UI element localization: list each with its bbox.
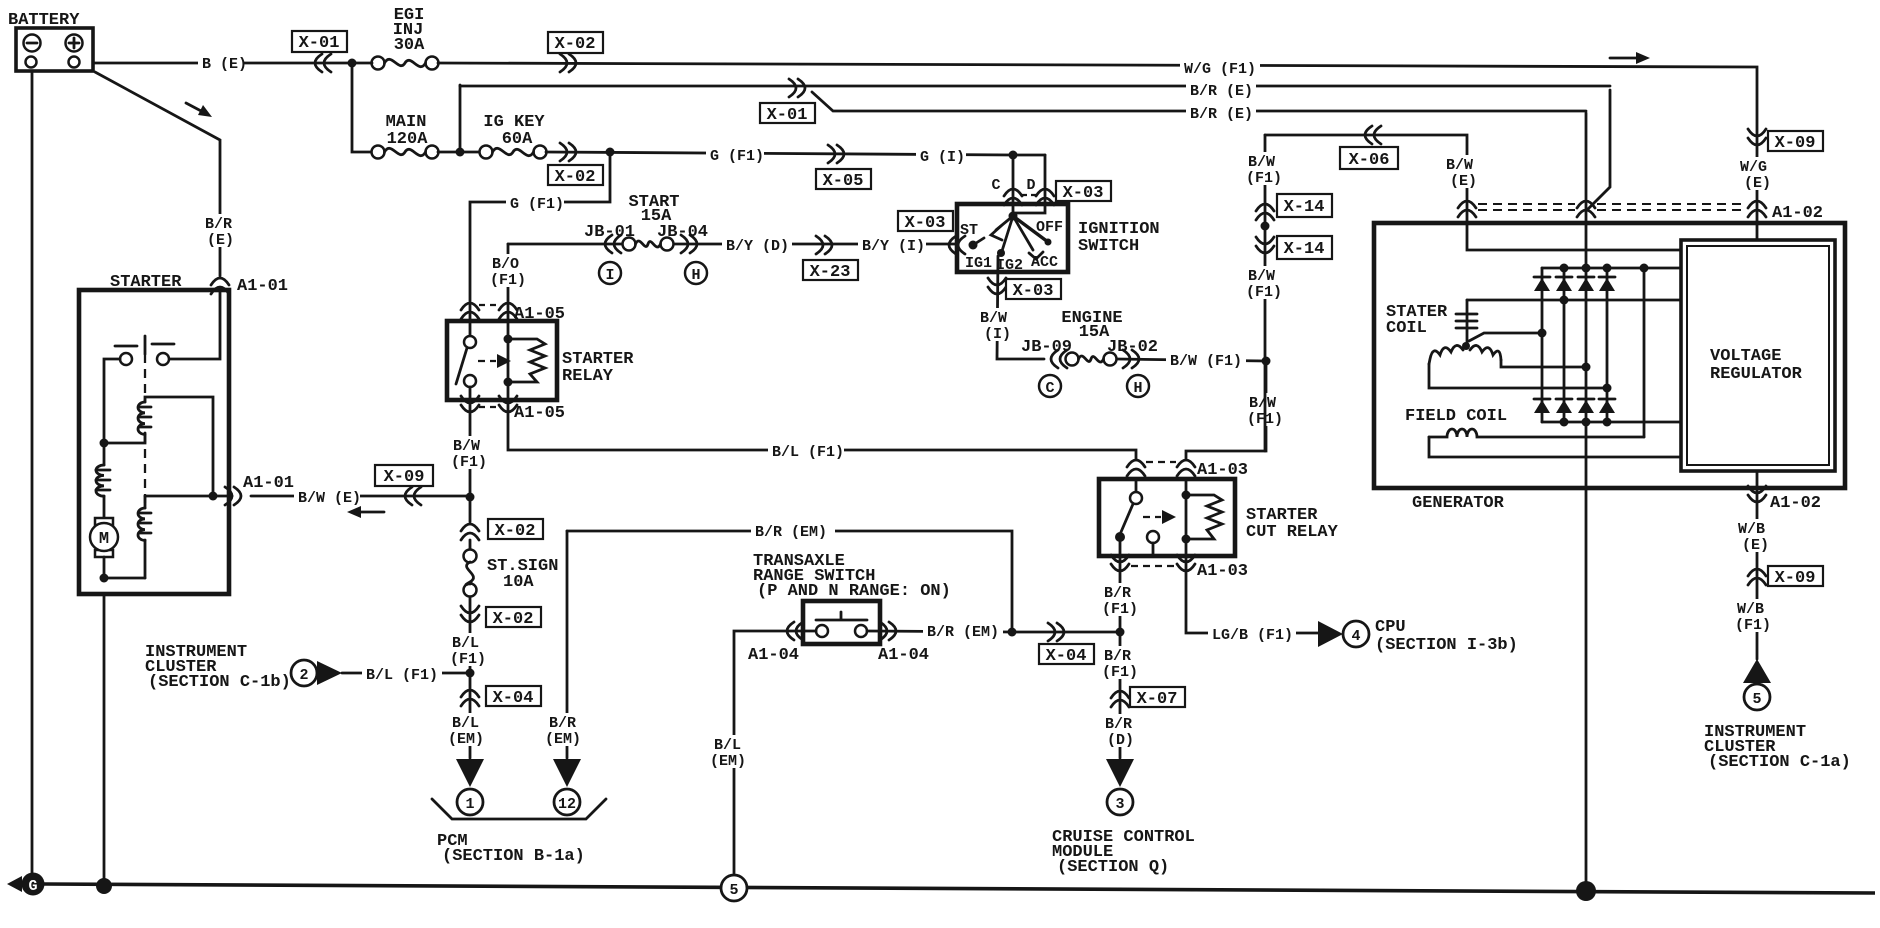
svg-text:JB-02: JB-02 — [1107, 338, 1158, 357]
transaxle range switch S2 — [753, 552, 951, 644]
starter cut relay K2 — [1099, 479, 1339, 556]
svg-text:B/R: B/R — [1104, 648, 1131, 665]
svg-text:A1-04: A1-04 — [748, 646, 799, 665]
svg-text:10A: 10A — [503, 573, 534, 592]
fuse ST.SIGN 10A — [464, 540, 559, 597]
svg-text:X-02: X-02 — [495, 522, 536, 541]
node 5 ground pin — [721, 875, 747, 901]
wire B/R (D) — [1102, 714, 1146, 749]
starter cable coil — [96, 443, 110, 518]
svg-text:B/R: B/R — [1104, 585, 1131, 602]
connector A1-01 output — [225, 474, 294, 505]
svg-text:B/R: B/R — [205, 216, 232, 233]
svg-text:B/L: B/L — [452, 715, 479, 732]
wire stator sense line — [1467, 299, 1681, 302]
svg-text:(SECTION Q): (SECTION Q) — [1057, 858, 1169, 877]
diode column 1 — [1534, 268, 1550, 422]
wire B/W (F1) to cut relay coil — [1186, 361, 1290, 459]
svg-text:B/R (EM): B/R (EM) — [927, 624, 999, 641]
svg-text:JB-04: JB-04 — [657, 223, 708, 242]
node ground rail junction — [96, 878, 112, 894]
svg-text:(SECTION C-1b): (SECTION C-1b) — [148, 673, 291, 692]
ground rail — [44, 884, 1875, 893]
wire B/W (E) — [251, 488, 470, 507]
wire LG/B (F1) — [1186, 556, 1318, 644]
instrument cluster C-1b label — [145, 643, 291, 692]
svg-text:60A: 60A — [502, 130, 533, 149]
svg-text:I: I — [605, 267, 614, 284]
svg-text:B/Y (D): B/Y (D) — [726, 238, 789, 255]
connector JB-09 — [1021, 338, 1072, 368]
connector A1-03 top — [1127, 460, 1248, 480]
diode column 3 — [1578, 277, 1594, 413]
svg-text:B/R: B/R — [1105, 716, 1132, 733]
svg-text:D: D — [1026, 177, 1035, 194]
svg-text:IG1: IG1 — [965, 255, 992, 272]
node 2 instrument cluster — [291, 660, 342, 686]
connector JB-01 — [584, 223, 635, 253]
svg-text:B/L (F1): B/L (F1) — [772, 444, 844, 461]
svg-text:(F1): (F1) — [490, 272, 526, 289]
connector X-04 mid — [1039, 623, 1094, 666]
wire C branch — [991, 155, 1022, 213]
wire B/R (EM) column — [545, 531, 593, 758]
ignition contact ST — [960, 222, 984, 250]
wire top line W/G (F1) — [438, 59, 1757, 240]
node X-14 junction — [1261, 222, 1270, 231]
svg-text:A1-04: A1-04 — [878, 646, 929, 665]
svg-text:W/G (F1): W/G (F1) — [1184, 61, 1256, 78]
connector A1-05 bottom — [461, 396, 565, 423]
diode bridge bottom rail — [1542, 418, 1681, 427]
svg-text:LG/B (F1): LG/B (F1) — [1212, 627, 1293, 644]
svg-text:4: 4 — [1351, 628, 1360, 645]
connector A1-01 top — [211, 277, 288, 296]
svg-text:X-02: X-02 — [493, 610, 534, 629]
svg-text:H: H — [691, 267, 700, 284]
starter relay K1 — [447, 321, 634, 400]
svg-text:X-02: X-02 — [555, 35, 596, 54]
wire B/W (F1) relay output — [450, 400, 494, 522]
svg-text:A1-05: A1-05 — [514, 404, 565, 423]
wire ignition output B/W (I) — [978, 256, 1044, 359]
node 12 PCM pin — [553, 759, 581, 815]
node G junction — [606, 148, 615, 157]
svg-text:(D): (D) — [1107, 732, 1134, 749]
svg-text:CPU: CPU — [1375, 618, 1406, 637]
arrow on diagonal — [186, 103, 212, 117]
wire G (F1) sub-branch — [470, 152, 610, 322]
starter hold coil — [138, 496, 151, 578]
PCM bracket — [432, 799, 606, 866]
svg-text:COIL: COIL — [1386, 319, 1427, 338]
connector X-05 — [816, 145, 871, 191]
connector X-03 top box — [1056, 181, 1111, 203]
svg-text:120A: 120A — [387, 130, 429, 149]
wire main vertical B/R — [1585, 113, 1588, 884]
svg-text:X-09: X-09 — [1775, 134, 1816, 153]
node B/W junction — [466, 493, 475, 502]
svg-text:X-05: X-05 — [823, 172, 864, 191]
starter cut relay switch — [1115, 479, 1159, 556]
fuse EGI INJ 30A — [372, 6, 439, 70]
wire battery negative to ground — [31, 71, 34, 874]
svg-text:C: C — [1045, 380, 1054, 397]
voltage regulator U1 — [1681, 240, 1835, 471]
battery B1 — [8, 11, 93, 71]
wire B/W (F1) fuse output — [1117, 351, 1266, 370]
connector X-09 bottom right — [1748, 566, 1823, 588]
wire X-06 link — [1265, 135, 1681, 250]
diode bridge top rail — [1542, 264, 1681, 305]
svg-text:X-02: X-02 — [555, 168, 596, 187]
connector JB-02 — [1107, 338, 1158, 368]
node B/R junction — [1116, 628, 1125, 637]
svg-text:(E): (E) — [1742, 537, 1769, 554]
wire B/O (F1) branch — [490, 244, 528, 322]
connector X-04 — [461, 673, 541, 758]
node C2 — [1039, 375, 1061, 397]
connector X-01 line2 — [760, 79, 815, 125]
svg-text:B/O: B/O — [492, 256, 519, 273]
connector X-03 bottom — [988, 278, 1061, 301]
svg-text:5: 5 — [1752, 691, 1761, 708]
wire starter ground — [103, 594, 106, 886]
svg-text:X-01: X-01 — [299, 34, 340, 53]
svg-text:A1-02: A1-02 — [1772, 204, 1823, 223]
svg-text:SWITCH: SWITCH — [1078, 237, 1139, 256]
motor M1 — [90, 518, 118, 557]
wire B/R line2 — [460, 81, 1610, 209]
svg-text:JB-09: JB-09 — [1021, 338, 1072, 357]
wire W/B (F1) label — [1734, 599, 1780, 634]
wire B/R (F1) cut relay output — [1101, 556, 1147, 758]
wire B/R (EM) to junction — [867, 622, 1120, 641]
wire B/W (F1) right column — [1246, 135, 1288, 451]
svg-text:X-06: X-06 — [1349, 151, 1390, 170]
starter actuator dashed link — [144, 354, 146, 505]
node H2 — [1127, 375, 1149, 397]
svg-text:X-03: X-03 — [905, 214, 946, 233]
stator coil L1 — [1429, 300, 1501, 364]
connector X-06 — [1340, 126, 1398, 170]
connector X-23 — [803, 236, 858, 282]
connector X-14 bottom — [1256, 236, 1332, 259]
svg-text:G: G — [28, 878, 37, 895]
node 3 cruise pin — [1106, 759, 1134, 815]
connector X-02 stsign bottom — [461, 597, 541, 673]
svg-text:X-14: X-14 — [1284, 198, 1325, 217]
svg-text:C: C — [991, 177, 1000, 194]
connector X-09 — [375, 465, 433, 505]
svg-text:X-14: X-14 — [1284, 240, 1325, 259]
svg-text:X-04: X-04 — [1046, 647, 1087, 666]
svg-text:STARTER: STARTER — [110, 273, 182, 292]
svg-text:5: 5 — [729, 882, 738, 899]
wire B/L (F1) label — [450, 633, 494, 668]
connector A1-03 bottom — [1111, 555, 1248, 581]
svg-text:A1-02: A1-02 — [1770, 494, 1821, 513]
node H — [685, 262, 707, 284]
connector X-01 — [292, 31, 347, 72]
ignition wiper — [991, 212, 1052, 260]
diode column 4 — [1599, 268, 1615, 422]
wire fuse link — [438, 85, 480, 157]
starter relay armature — [478, 354, 511, 368]
svg-text:VOLTAGE: VOLTAGE — [1710, 347, 1781, 366]
connector A1-05 top — [461, 303, 565, 324]
node 4 CPU pin — [1318, 618, 1518, 655]
svg-text:CUT RELAY: CUT RELAY — [1246, 523, 1339, 542]
node 5 instrument cluster pin — [1743, 659, 1771, 710]
wire battery positive B (E) — [93, 53, 352, 73]
svg-text:X-23: X-23 — [810, 263, 851, 282]
svg-text:REGULATOR: REGULATOR — [1710, 365, 1803, 384]
wire B/R line3 — [812, 92, 1586, 123]
svg-text:B/W: B/W — [1248, 268, 1275, 285]
node junction at X-01 — [348, 59, 357, 68]
svg-text:X-03: X-03 — [1063, 184, 1104, 203]
wire B/L (F1) relay to cut relay — [508, 400, 1136, 461]
svg-text:B/L: B/L — [714, 737, 741, 754]
node B/L junction — [466, 669, 475, 678]
arrow left under B/W (E) — [347, 506, 384, 518]
starter relay coil — [504, 321, 546, 400]
svg-text:3: 3 — [1115, 796, 1124, 813]
wire stator phase A — [1469, 329, 1547, 342]
node B/W (F1) junction — [1262, 357, 1271, 366]
svg-text:X-07: X-07 — [1137, 690, 1178, 709]
generator box — [1374, 223, 1845, 513]
ground G — [7, 873, 45, 896]
svg-text:B/W: B/W — [1248, 154, 1275, 171]
svg-text:(P AND N RANGE: ON): (P AND N RANGE: ON) — [757, 582, 951, 601]
svg-text:(EM): (EM) — [545, 731, 581, 748]
svg-text:(F1): (F1) — [451, 454, 487, 471]
svg-text:(F1): (F1) — [1102, 664, 1138, 681]
svg-text:X-09: X-09 — [384, 468, 425, 487]
connector X-09 top right — [1748, 129, 1823, 153]
wire stator phase C — [1429, 364, 1612, 393]
svg-text:RELAY: RELAY — [562, 367, 614, 386]
svg-text:B/W: B/W — [1249, 395, 1276, 412]
starter box — [79, 273, 229, 594]
wire D branch — [1013, 155, 1054, 213]
wire B/R (EM) horizontal — [567, 522, 1012, 632]
wire B/L (EM) — [448, 713, 496, 748]
svg-text:B/L (F1): B/L (F1) — [366, 667, 438, 684]
fuse START 15A — [623, 193, 680, 251]
connector X-07 — [1111, 687, 1185, 709]
svg-text:B (E): B (E) — [202, 56, 247, 73]
svg-text:30A: 30A — [394, 36, 425, 55]
connector X-02 top — [548, 32, 603, 72]
wire MAIN branch — [352, 63, 372, 152]
svg-text:2: 2 — [299, 667, 308, 684]
ignition labels — [965, 219, 1063, 274]
svg-text:(SECTION I-3b): (SECTION I-3b) — [1375, 636, 1518, 655]
svg-text:(EM): (EM) — [448, 731, 484, 748]
fuse MAIN 120A — [372, 113, 439, 159]
connector A1-04 left — [748, 622, 803, 665]
starter relay switch — [456, 321, 476, 400]
svg-text:H: H — [1133, 380, 1142, 397]
svg-text:B/R (E): B/R (E) — [1190, 83, 1253, 100]
connector X-02 fuse line — [548, 143, 603, 187]
cruise control module label — [1052, 828, 1195, 877]
svg-text:FIELD COIL: FIELD COIL — [1405, 407, 1507, 426]
svg-text:B/W (F1): B/W (F1) — [1170, 353, 1242, 370]
wire W/G (E) label — [1738, 157, 1778, 192]
svg-text:(F1): (F1) — [450, 651, 486, 668]
svg-text:B/R (EM): B/R (EM) — [755, 524, 827, 541]
svg-text:X-01: X-01 — [767, 106, 808, 125]
svg-text:B/W: B/W — [453, 438, 480, 455]
node G (I) junction — [1009, 151, 1018, 160]
starter cut relay armature — [1143, 510, 1176, 524]
diode column 2 — [1556, 268, 1572, 422]
svg-text:G (I): G (I) — [920, 149, 965, 166]
wire B/L (F1) to cluster — [342, 665, 470, 684]
svg-text:(EM): (EM) — [710, 753, 746, 770]
svg-text:(SECTION B-1a): (SECTION B-1a) — [442, 847, 585, 866]
node transaxle junction — [1008, 628, 1017, 637]
connector X-14 top — [1256, 194, 1332, 220]
connector A1-04 right — [878, 622, 929, 665]
wire stator phase B — [1501, 360, 1591, 372]
instrument cluster C-1a label — [1704, 723, 1851, 772]
svg-text:W/B: W/B — [1738, 521, 1765, 538]
fuse IG KEY 60A — [480, 113, 547, 159]
svg-text:OFF: OFF — [1036, 219, 1063, 236]
svg-text:B/W: B/W — [1446, 157, 1473, 174]
wire transaxle left B/L (EM) — [710, 631, 816, 875]
wire field exciter column — [1643, 268, 1646, 437]
svg-text:(E): (E) — [207, 232, 234, 249]
svg-text:X-03: X-03 — [1013, 282, 1054, 301]
svg-text:W/G: W/G — [1740, 159, 1767, 176]
wire starter switch to solenoid node — [104, 359, 120, 443]
svg-text:1: 1 — [465, 796, 474, 813]
svg-text:A1-03: A1-03 — [1197, 562, 1248, 581]
starter cut relay coil — [1182, 479, 1223, 556]
svg-text:B/Y (I): B/Y (I) — [862, 238, 925, 255]
arrow right top — [1610, 52, 1650, 64]
svg-text:A1-01: A1-01 — [237, 277, 288, 296]
field coil label — [1405, 407, 1507, 426]
fuse ENGINE 15A — [1061, 309, 1122, 366]
connector JB-04 — [657, 223, 708, 253]
node I — [599, 262, 621, 284]
svg-text:(I): (I) — [984, 326, 1011, 343]
svg-text:12: 12 — [558, 796, 576, 813]
connector A1-02 row — [1458, 201, 1823, 223]
svg-text:B/R: B/R — [549, 715, 576, 732]
svg-text:ST: ST — [960, 222, 978, 239]
node 1 PCM pin — [456, 759, 484, 815]
svg-text:(E): (E) — [1450, 173, 1477, 190]
starter pull-in coil — [104, 397, 213, 496]
wire G (F1) line — [546, 146, 1045, 166]
svg-text:B/L: B/L — [452, 635, 479, 652]
wire starter output A1-01 — [145, 492, 232, 501]
svg-text:B/W: B/W — [980, 310, 1007, 327]
svg-text:A1-01: A1-01 — [243, 474, 294, 493]
ignition switch S1 — [957, 204, 1160, 272]
connector X-02 stsign top — [461, 519, 543, 541]
svg-text:BATTERY: BATTERY — [8, 11, 80, 30]
wire START fuse line — [508, 236, 958, 255]
node solenoid junction — [100, 439, 109, 448]
svg-text:B/R (E): B/R (E) — [1190, 106, 1253, 123]
connector ignition entry — [898, 211, 965, 254]
svg-text:15A: 15A — [1079, 323, 1110, 342]
svg-text:G (F1): G (F1) — [710, 148, 764, 165]
wire motor to ground node — [100, 557, 146, 583]
field coil L2 — [1429, 429, 1644, 437]
node main ground junction — [1576, 881, 1596, 901]
svg-text:W/B: W/B — [1737, 601, 1764, 618]
svg-text:(SECTION C-1a): (SECTION C-1a) — [1708, 753, 1851, 772]
wire W/B (E) — [1736, 471, 1776, 659]
svg-text:(E): (E) — [1744, 175, 1771, 192]
connector A1-02 VR output — [1748, 486, 1821, 513]
wire starter feed inside — [169, 290, 220, 359]
svg-text:G (F1): G (F1) — [510, 196, 564, 213]
svg-text:GENERATOR: GENERATOR — [1412, 494, 1505, 513]
svg-text:B/W (E): B/W (E) — [298, 490, 361, 507]
svg-text:X-04: X-04 — [493, 689, 534, 708]
svg-text:X-09: X-09 — [1775, 569, 1816, 588]
svg-text:(F1): (F1) — [1246, 170, 1282, 187]
wire field return — [1429, 437, 1681, 457]
svg-text:(F1): (F1) — [1735, 617, 1771, 634]
svg-text:IG2: IG2 — [996, 257, 1023, 274]
wire battery diagonal B/R (E) — [95, 72, 240, 276]
svg-text:(F1): (F1) — [1246, 284, 1282, 301]
svg-text:ACC: ACC — [1031, 254, 1058, 271]
svg-text:M: M — [99, 530, 109, 549]
starter switch contacts — [115, 336, 174, 365]
stator coil label — [1386, 303, 1448, 338]
svg-text:(F1): (F1) — [1102, 601, 1138, 618]
